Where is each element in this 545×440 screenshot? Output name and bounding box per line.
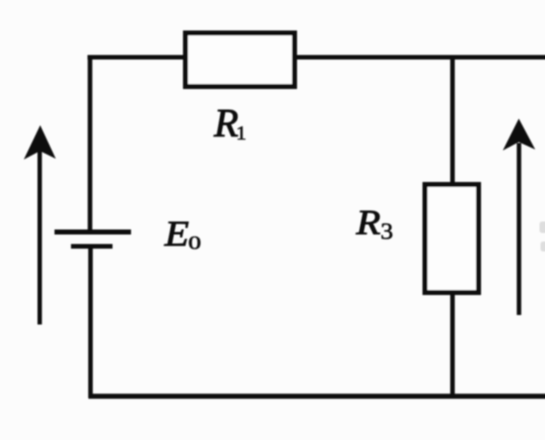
svg-text:1: 1: [236, 123, 246, 144]
svg-text:R: R: [213, 100, 238, 145]
svg-text:E: E: [164, 214, 189, 254]
svg-text:0: 0: [188, 232, 201, 253]
svg-text:R: R: [355, 204, 381, 242]
svg-text:3: 3: [381, 219, 394, 245]
